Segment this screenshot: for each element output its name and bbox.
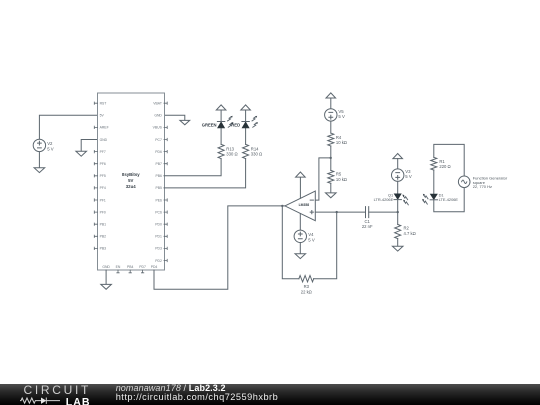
svg-text:R14: R14 — [251, 146, 259, 151]
label R13 330ohm — [226, 146, 237, 156]
svg-text:GND: GND — [154, 114, 162, 118]
svg-text:GND: GND — [102, 265, 110, 269]
svg-text:5V: 5V — [100, 114, 105, 118]
wire: V4 to ground — [299, 243, 301, 254]
svg-text:22, 770 Hz: 22, 770 Hz — [473, 184, 492, 189]
node: detector junction — [397, 211, 399, 213]
wire: R13 to GREEN LED — [220, 128, 222, 144]
svg-text:4.7 kΩ: 4.7 kΩ — [404, 231, 416, 236]
svg-text:RST: RST — [100, 102, 107, 106]
capacitor C1 — [366, 207, 369, 218]
svg-text:PF4: PF4 — [100, 186, 106, 190]
label R14 330ohm — [251, 146, 262, 156]
wire: feedback down to R3 — [282, 206, 299, 279]
svg-text:RED: RED — [231, 122, 240, 127]
svg-text:PD2: PD2 — [155, 259, 162, 263]
svg-text:PF0: PF0 — [100, 210, 106, 214]
wire: op-amp minus input to divider tap — [315, 158, 330, 200]
svg-text:330 Ω: 330 Ω — [226, 152, 237, 157]
ground under V4 — [295, 254, 306, 259]
IC U1 ItsyBitsy 5V 32u4 body — [98, 93, 165, 270]
ground under R5 — [326, 193, 337, 198]
svg-text:GREEN: GREEN — [202, 122, 217, 127]
wire: C1 to detector node — [369, 211, 398, 213]
CircuitLab logo text CIRCUIT — [24, 386, 99, 396]
CircuitLab logo glyph (resistor + diode) and LAB — [20, 396, 95, 405]
label R3 22kohm — [301, 284, 312, 294]
op-amp U2 LM358 (mirrored, inputs right) — [285, 191, 315, 221]
svg-text:LTE-4206E: LTE-4206E — [439, 197, 459, 202]
op-amp plus symbol — [310, 211, 313, 214]
wire: R14 to RED LED — [245, 128, 247, 144]
label C1 22nF — [362, 219, 373, 229]
svg-text:22 kΩ: 22 kΩ — [301, 289, 312, 294]
label V5 5V — [338, 109, 345, 119]
label V3 5V — [405, 169, 412, 179]
wire: R1 to D2 — [433, 170, 435, 194]
D2 emission arrows — [423, 193, 428, 200]
ground under R2 — [392, 246, 403, 251]
wire: flag to V5 — [330, 98, 332, 109]
svg-text:5 V: 5 V — [405, 174, 412, 179]
svg-text:10 kΩ: 10 kΩ — [336, 177, 347, 182]
svg-text:10 kΩ: 10 kΩ — [336, 140, 347, 145]
ground under IC — [101, 284, 112, 289]
svg-text:PB1: PB1 — [100, 223, 107, 227]
IC pin stubs left (unconnected) — [94, 102, 97, 250]
resistor R5 — [328, 170, 334, 183]
svg-text:PF7: PF7 — [100, 150, 106, 154]
svg-text:5 V: 5 V — [308, 237, 315, 242]
resistor R4 — [328, 133, 334, 146]
ground right of IC — [180, 120, 190, 124]
svg-text:PF1: PF1 — [100, 198, 106, 202]
label R4 10kohm — [336, 135, 347, 145]
phototransistor Q1 LTR-4206E — [394, 194, 401, 200]
resistor R2 — [395, 224, 401, 238]
resistor R3 — [299, 276, 314, 282]
LED GREEN emission arrows — [227, 116, 234, 121]
label Function Generator square 22,770 Hz — [473, 176, 508, 189]
wire: V2 top to IC 5V pin — [39, 115, 97, 139]
svg-text:PF6: PF6 — [100, 162, 106, 166]
svg-text:220 Ω: 220 Ω — [439, 164, 450, 169]
wire: V3 to Q1 — [397, 181, 399, 194]
IC pin stubs right (unconnected) — [164, 102, 167, 262]
svg-text:EN: EN — [116, 265, 121, 269]
function generator FG1 — [458, 176, 470, 188]
svg-text:AREF: AREF — [100, 126, 109, 130]
wire: GREEN LED to supply flag — [220, 110, 222, 122]
svg-text:330 Ω: 330 Ω — [251, 152, 262, 157]
label R2 4.7kohm — [404, 226, 416, 236]
label V4 5V — [308, 232, 315, 242]
svg-text:22 nF: 22 nF — [362, 224, 373, 229]
wire: op-amp V+ stem — [299, 177, 301, 198]
wire: Q1 to R2 — [397, 200, 399, 225]
svg-text:PD0: PD0 — [155, 223, 162, 227]
LED RED emission arrows — [251, 116, 258, 121]
svg-text:GND: GND — [100, 138, 108, 142]
label Q1 LTR-4206E — [374, 193, 394, 203]
ground left of IC — [76, 151, 87, 156]
svg-text:5 V: 5 V — [47, 146, 54, 151]
IC center label ItsyBitsy 5V 32u4 — [122, 172, 141, 189]
svg-text:PF5: PF5 — [100, 174, 106, 178]
voltage source V5 5V (minus on top) — [325, 109, 337, 121]
svg-text:LAB: LAB — [66, 396, 91, 405]
LED GREEN — [217, 121, 224, 123]
svg-text:PC6: PC6 — [155, 210, 162, 214]
wire: D2 to loop bottom and function generator — [434, 188, 464, 212]
wire: R4 to R5 — [330, 146, 332, 170]
label R1 220ohm — [439, 159, 450, 169]
wire: op-amp V- stem to V4 — [299, 214, 301, 231]
wire: R3 to plus-input node — [314, 212, 337, 279]
supply flag above RED LED — [241, 105, 251, 110]
wire: IC right GND pin to ground — [164, 115, 185, 120]
wire: IC left GND pin to ground — [81, 140, 97, 152]
svg-text:R13: R13 — [226, 146, 234, 151]
wire: RED LED to supply flag — [245, 110, 247, 122]
svg-text:PD7: PD7 — [139, 265, 146, 269]
svg-text:32u4: 32u4 — [126, 184, 136, 189]
voltage source V3 5V (minus on top) — [392, 169, 404, 181]
svg-text:VBAT: VBAT — [153, 102, 162, 106]
node: divider tap junction — [330, 157, 332, 159]
wire: PD4 to op-amp output — [154, 206, 285, 289]
supply flag above V3 — [393, 154, 403, 159]
supply flag above op-amp — [296, 172, 306, 177]
LED D2 LTE-4206E (IR emitter) — [430, 194, 437, 200]
wire: R5 to ground — [330, 183, 332, 193]
op-amp minus symbol — [310, 199, 313, 201]
resistor R1 — [431, 157, 437, 170]
svg-text:PD4: PD4 — [151, 265, 158, 269]
IC pin labels left — [100, 102, 109, 251]
voltage source V2 5V — [33, 139, 45, 151]
svg-text:PB6: PB6 — [155, 174, 162, 178]
svg-text:PB5: PB5 — [155, 186, 162, 190]
LED RED — [242, 121, 249, 123]
svg-text:PD1: PD1 — [155, 235, 162, 239]
wire: PB5 to R14 — [164, 159, 246, 188]
svg-text:PC7: PC7 — [155, 138, 162, 142]
voltage source V4 5V — [294, 230, 306, 242]
supply flag above V5 — [326, 93, 336, 98]
wire: PB6 to R13 — [164, 159, 221, 176]
wire: V2 bottom to ground — [38, 152, 40, 168]
node: plus input / feedback junction — [336, 211, 338, 213]
svg-text:LM358: LM358 — [299, 203, 310, 207]
svg-text:PE6: PE6 — [155, 198, 162, 202]
resistor R14 — [243, 144, 249, 158]
IC pin labels right — [153, 102, 163, 263]
svg-text:PB7: PB7 — [155, 162, 162, 166]
resistor R13 — [218, 144, 224, 158]
wire: R2 to ground — [397, 239, 399, 247]
wire: IC bottom GND pin to ground — [105, 270, 107, 284]
svg-text:ItsyBitsy: ItsyBitsy — [122, 172, 141, 177]
label D2 LTE-4206E — [439, 193, 459, 203]
Q1 incident light arrows — [402, 194, 407, 201]
node: output/feedback junction — [281, 205, 283, 207]
wire: loop top-left corner — [434, 144, 464, 176]
svg-text:PB3: PB3 — [100, 247, 107, 251]
svg-text:5 V: 5 V — [338, 114, 345, 119]
wire: op-amp plus input to C1 — [315, 211, 365, 213]
ground under V2 — [34, 168, 45, 173]
svg-text:PB4: PB4 — [127, 265, 134, 269]
svg-text:PD3: PD3 — [155, 247, 162, 251]
label R5 10kohm — [336, 172, 347, 182]
svg-text:PB2: PB2 — [100, 235, 107, 239]
IC pin stubs bottom — [117, 270, 144, 273]
supply flag above GREEN LED — [216, 105, 226, 110]
wire: flag to V3 — [397, 159, 399, 169]
svg-text:5V: 5V — [128, 178, 133, 183]
svg-text:PD6: PD6 — [155, 150, 162, 154]
IC pin labels bottom — [102, 265, 157, 269]
svg-text:VBUS: VBUS — [153, 126, 163, 130]
wire: V5 to R4 — [330, 121, 332, 133]
svg-text:LTR-4206E: LTR-4206E — [374, 197, 394, 202]
